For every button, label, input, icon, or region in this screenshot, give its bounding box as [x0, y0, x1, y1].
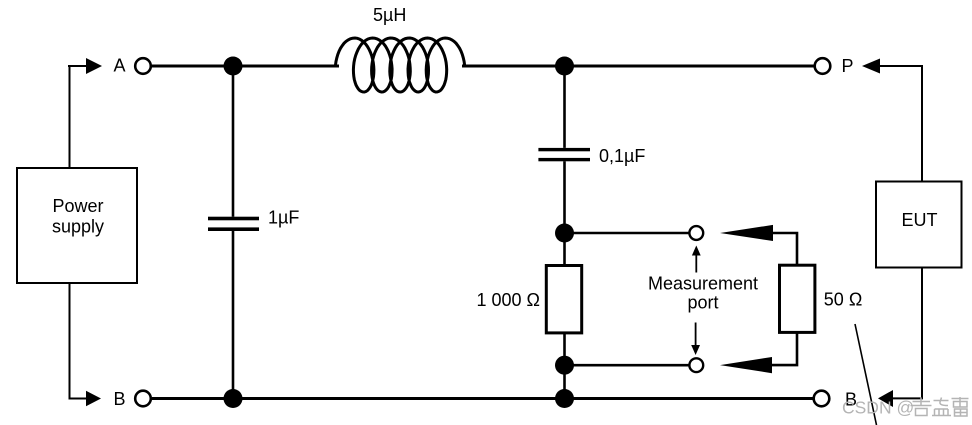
stray diagonal annotation line [855, 324, 877, 425]
terminal A [135, 58, 151, 74]
arrow into right B [878, 390, 893, 407]
port terminal top [689, 226, 703, 240]
arrow into A [86, 58, 102, 74]
EUT box [876, 182, 962, 268]
arrow down to bottom port [691, 323, 700, 356]
terminal P [815, 58, 831, 74]
watermark glyph lei [952, 397, 969, 416]
watermark glyph ji [911, 398, 932, 416]
long arrow into top port [720, 225, 773, 241]
terminal B right [814, 391, 830, 407]
svg-text:supply: supply [52, 217, 104, 237]
svg-text:port: port [687, 292, 718, 312]
arrow into B left [86, 391, 101, 407]
wire junction to P terminal [565, 65, 815, 68]
svg-text:Power: Power [52, 196, 103, 216]
wire junction to bottom rail [563, 365, 566, 398]
measurement port label [648, 274, 758, 313]
svg-text:5µH: 5µH [373, 5, 406, 25]
junction dot top-left [224, 57, 243, 76]
junction dot bottom-mid [555, 389, 574, 408]
watermark glyph meng [932, 398, 951, 416]
port terminal bottom [689, 358, 703, 372]
junction dot measurement top [555, 224, 574, 243]
wire power-supply to A arrow [68, 65, 87, 168]
arrow up to top port [692, 246, 701, 273]
svg-text:1µF: 1µF [268, 208, 299, 228]
bottom-left: wire power supply to B arrow [70, 283, 88, 399]
svg-text:EUT: EUT [902, 210, 938, 230]
resistor R1 1000 ohm [477, 233, 582, 365]
capacitor C2 0,1uF [538, 66, 645, 233]
wire P arrow to EUT [879, 66, 922, 182]
svg-text:P: P [842, 56, 854, 76]
wire EUT to B arrow [892, 268, 922, 399]
svg-text:Measurement: Measurement [648, 274, 758, 294]
wire 50ohm to bottom arrow [772, 332, 797, 365]
inductor L1 5uH [336, 5, 465, 92]
svg-text:B: B [114, 389, 126, 409]
wire junction to inductor [233, 65, 339, 68]
wire to port circle top [565, 232, 689, 235]
resistor R2 50 ohm [780, 265, 863, 332]
wire top arrow to 50ohm [772, 233, 797, 266]
svg-text:0,1µF: 0,1µF [599, 146, 645, 166]
wire inductor to junction [462, 65, 565, 68]
bottom rail wire [152, 397, 813, 400]
svg-text:1 000 Ω: 1 000 Ω [477, 290, 541, 310]
long arrow into bottom port [720, 357, 772, 373]
terminal B left [135, 391, 151, 407]
wire A to junction [152, 65, 233, 68]
power supply box [17, 168, 137, 283]
wire to port circle bottom [565, 364, 689, 367]
arrow into P [862, 59, 880, 74]
junction dot measurement bottom [555, 356, 574, 375]
junction dot top-mid [555, 57, 574, 76]
junction dot bottom-left [224, 389, 243, 408]
capacitor C1 1uF [208, 66, 299, 399]
svg-text:A: A [114, 56, 126, 76]
svg-text:CSDN @: CSDN @ [842, 398, 914, 418]
svg-text:50 Ω: 50 Ω [824, 290, 862, 310]
